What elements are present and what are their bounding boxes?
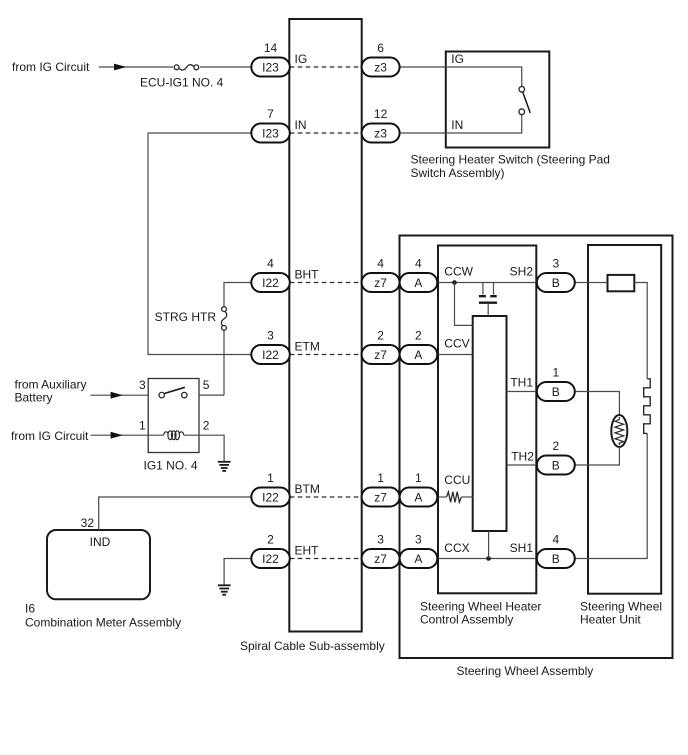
svg-text:Steering Wheel Assembly: Steering Wheel Assembly [457, 664, 594, 678]
svg-text:z7: z7 [374, 491, 387, 505]
svg-text:B: B [552, 459, 560, 473]
wire CCU: A pin1 through resistor to IC block [437, 492, 472, 502]
svg-text:I22: I22 [262, 276, 279, 290]
svg-text:ETM: ETM [295, 340, 320, 354]
spiral cable sub-assembly box [289, 19, 361, 632]
svg-text:I23: I23 [262, 61, 279, 75]
svg-text:z7: z7 [374, 276, 387, 290]
wire relay pin 5 up to STRG HTR line [199, 394, 224, 396]
wire CCX junction up to IC block bottom [488, 531, 490, 559]
wire from Auxiliary Battery feed [91, 394, 149, 396]
svg-text:2: 2 [267, 533, 274, 547]
svg-text:I6: I6 [25, 602, 35, 616]
svg-text:CCX: CCX [444, 541, 469, 555]
node CCW junction [452, 280, 457, 285]
svg-text:3: 3 [267, 329, 274, 343]
control assembly box U (Steering Wheel Heater Control Assembly) [438, 246, 536, 594]
fuse ECU-IG1 NO. 4 [173, 63, 200, 71]
svg-text:I23: I23 [262, 127, 279, 141]
svg-text:2: 2 [377, 329, 384, 343]
connector I23 pin 14 (IG) [251, 41, 289, 77]
svg-text:z3: z3 [374, 127, 387, 141]
svg-text:4: 4 [267, 257, 274, 271]
svg-text:from Auxiliary: from Auxiliary [15, 378, 87, 392]
svg-text:1: 1 [267, 471, 274, 485]
svg-text:A: A [414, 276, 422, 290]
transistor Q1 (FET in control assembly) [479, 283, 497, 317]
svg-text:B: B [552, 552, 560, 566]
svg-text:1: 1 [415, 471, 422, 485]
arrow (top IG feed) [114, 64, 127, 71]
wire BTM from I22 pin1 to combination meter IND [99, 497, 252, 530]
wire CCX: A pin3 to B pin4 (SH1 row) [437, 558, 537, 560]
svg-text:Heater Unit: Heater Unit [580, 613, 641, 627]
svg-text:SH2: SH2 [510, 264, 534, 278]
svg-text:z7: z7 [374, 552, 387, 566]
wire TH1: IC block to B pin1 [507, 391, 537, 393]
svg-text:4: 4 [415, 257, 422, 271]
relay pin labels 3 5 1 2 [139, 378, 210, 433]
arrow (aux battery feed) [111, 392, 123, 399]
svg-text:3: 3 [552, 257, 559, 271]
steering heater switch box [446, 52, 550, 148]
connector z7 pin 3 [362, 533, 400, 569]
dashed wire BHT row [290, 282, 362, 284]
relay coil [164, 431, 184, 440]
thermistor (heater unit temp sensor) [611, 415, 627, 447]
svg-text:IN: IN [451, 118, 463, 132]
svg-text:3: 3 [139, 378, 146, 392]
svg-text:from IG Circuit: from IG Circuit [11, 429, 89, 443]
wire z3 pin6 to switch contact [400, 67, 522, 86]
svg-text:TH2: TH2 [511, 449, 534, 463]
svg-text:2: 2 [415, 329, 422, 343]
fuse STRG HTR [221, 307, 226, 331]
svg-text:BTM: BTM [295, 482, 320, 496]
svg-text:Switch Assembly): Switch Assembly) [411, 166, 505, 180]
ground (relay coil) [218, 462, 231, 471]
connector z3 pin 12 [362, 107, 400, 143]
wire from IG Circuit feed (bottom) [91, 434, 164, 436]
svg-text:3: 3 [377, 533, 384, 547]
connector z7 pin 4 [362, 257, 400, 293]
svg-text:7: 7 [267, 107, 274, 121]
connector I23 pin 7 (IN) [251, 107, 289, 143]
connector B pin 3 (SH2) [537, 257, 575, 293]
IC block inside control assembly [473, 316, 507, 531]
svg-text:IG: IG [295, 52, 308, 66]
wire TH1 B pin1 to thermistor top [575, 392, 620, 416]
connector z7 pin 1 [362, 471, 400, 507]
arrow (bottom IG feed) [111, 432, 123, 439]
connector I22 pin 1 (BTM) [251, 471, 289, 507]
svg-text:Steering Heater Switch (Steeri: Steering Heater Switch (Steering Pad [411, 153, 610, 167]
steering wheel assembly box [400, 236, 673, 659]
svg-text:Steering Wheel Heater: Steering Wheel Heater [420, 599, 541, 613]
svg-text:1: 1 [139, 419, 146, 433]
svg-text:14: 14 [264, 41, 278, 55]
wire CCW junction down to IC block [455, 283, 473, 326]
connector I22 pin 2 (EHT) [251, 533, 289, 569]
wire resistor block to heater element top [634, 283, 647, 379]
connector B pin 2 (TH2) [537, 439, 575, 475]
connector z7 pin 2 [362, 329, 400, 365]
connector I22 pin 3 (ETM) [251, 329, 289, 365]
wire relay coil to pin 2 and ground [184, 435, 224, 461]
wire EHT from I22 pin2 to ground [224, 559, 251, 586]
svg-text:STRG HTR: STRG HTR [155, 310, 217, 324]
svg-text:1: 1 [377, 471, 384, 485]
svg-text:B: B [552, 385, 560, 399]
svg-text:EHT: EHT [295, 544, 320, 558]
svg-text:3: 3 [415, 533, 422, 547]
combination meter assembly box I6 [47, 530, 150, 599]
heater element (square-wave) [644, 379, 651, 434]
resistor block R (heater unit) [608, 275, 635, 291]
wire BHT from I22 left through STRG HTR fuse down to relay pin 5 [224, 283, 251, 307]
svg-text:BHT: BHT [295, 268, 320, 282]
svg-text:A: A [414, 552, 422, 566]
svg-text:4: 4 [552, 533, 559, 547]
svg-text:z3: z3 [374, 61, 387, 75]
svg-text:Combination Meter Assembly: Combination Meter Assembly [25, 615, 181, 629]
label I6 Combination Meter Assembly [25, 602, 181, 630]
wire thermistor bottom to TH2 B pin2 [575, 447, 620, 465]
label Steering Wheel Heater Unit [580, 599, 662, 626]
svg-text:I22: I22 [262, 491, 279, 505]
svg-text:12: 12 [374, 107, 388, 121]
svg-text:IN: IN [295, 118, 307, 132]
svg-text:IND: IND [90, 535, 111, 549]
svg-text:2: 2 [203, 419, 210, 433]
svg-text:Steering Wheel: Steering Wheel [580, 599, 662, 613]
svg-text:1: 1 [552, 366, 559, 380]
wire TH2: IC block to B pin2 [507, 464, 537, 466]
dashed wire EHT row [290, 558, 362, 560]
svg-text:B: B [552, 276, 560, 290]
svg-text:CCU: CCU [444, 473, 470, 487]
wire z3 pin12 to switch contact [400, 115, 522, 133]
dashed wire ETM row [290, 354, 362, 356]
connector A pin 3 (CCX) [400, 533, 438, 569]
connector I22 pin 4 (BHT) [251, 257, 289, 293]
wire IN vertical from I23 pin7 down to ETM row [148, 133, 251, 355]
connector z3 pin 6 [362, 41, 400, 77]
wire CCV: A pin2 to IC block [437, 354, 472, 356]
svg-text:Spiral Cable Sub-assembly: Spiral Cable Sub-assembly [240, 639, 385, 653]
svg-text:z7: z7 [374, 348, 387, 362]
heater unit box (Steering Wheel Heater Unit) [588, 245, 661, 594]
label from Auxiliary Battery [15, 378, 87, 405]
dashed wire IN row (I23 to z3) [290, 132, 362, 134]
wire heater element bottom down to SH1 row [575, 433, 647, 558]
node CCX junction [486, 556, 491, 561]
svg-text:I22: I22 [262, 348, 279, 362]
svg-text:IG: IG [451, 52, 464, 66]
svg-text:A: A [414, 491, 422, 505]
connector A pin 1 (CCU) [400, 471, 438, 507]
dashed wire IG row (I23 to z3) [290, 66, 362, 68]
relay switch contacts [159, 387, 187, 398]
svg-text:Control Assembly: Control Assembly [420, 613, 513, 627]
label Steering Wheel Heater Control Assembly [420, 599, 541, 626]
connector A pin 4 (CCW) [400, 257, 438, 293]
connector A pin 2 (CCV) [400, 329, 438, 365]
svg-text:TH1: TH1 [510, 376, 533, 390]
svg-text:2: 2 [552, 439, 559, 453]
relay box IG1 NO. 4 [148, 379, 199, 453]
connector B pin 4 (SH1) [537, 533, 575, 569]
wire CCW net: A pin4 to B pin3 (SH2 row) [437, 282, 537, 284]
ground (EHT) [218, 585, 231, 594]
svg-text:Battery: Battery [15, 391, 53, 405]
svg-text:IG1 NO. 4: IG1 NO. 4 [144, 459, 198, 473]
svg-text:SH1: SH1 [510, 541, 534, 555]
switch contacts (steering heater switch) [519, 86, 530, 114]
svg-text:5: 5 [203, 378, 210, 392]
svg-text:ECU-IG1 NO. 4: ECU-IG1 NO. 4 [140, 76, 224, 90]
label Steering Heater Switch (Steering Pad Switch Assembly) [411, 153, 610, 180]
svg-text:32: 32 [81, 516, 95, 530]
svg-text:I22: I22 [262, 552, 279, 566]
wire from IG Circuit feed (top) [99, 66, 252, 68]
svg-text:A: A [414, 348, 422, 362]
svg-text:from IG Circuit: from IG Circuit [12, 60, 90, 74]
svg-text:CCW: CCW [444, 264, 473, 278]
wire SH2 B pin3 to resistor block [575, 282, 608, 284]
connector B pin 1 (TH1) [537, 366, 575, 402]
dashed wire BTM row [290, 496, 362, 498]
svg-text:6: 6 [377, 41, 384, 55]
svg-text:4: 4 [377, 257, 384, 271]
svg-text:CCV: CCV [444, 337, 469, 351]
